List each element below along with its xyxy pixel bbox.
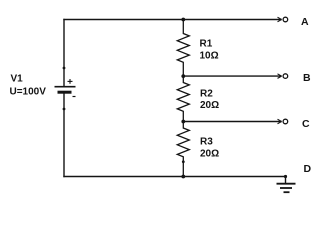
ground [277, 184, 296, 193]
svg-text:B: B [303, 72, 311, 84]
wire bottom (node D rail) [64, 176, 286, 178]
node C terminal [278, 119, 288, 124]
svg-text:10Ω: 10Ω [200, 50, 219, 61]
wire left upper (top rail to battery +) [63, 20, 65, 87]
wire top (node A rail) [64, 19, 281, 21]
svg-text:D: D [304, 163, 312, 175]
svg-text:U=100V: U=100V [10, 86, 47, 97]
svg-text:20Ω: 20Ω [200, 148, 219, 159]
svg-text:A: A [301, 16, 309, 28]
svg-text:R2: R2 [200, 88, 213, 99]
junction node B [181, 74, 185, 78]
junction node D [284, 175, 287, 178]
junction node C [181, 120, 185, 124]
node A terminal [278, 17, 288, 22]
resistor R3 [177, 122, 189, 177]
svg-text:R1: R1 [200, 38, 213, 49]
battery V1 [55, 67, 76, 111]
wire D stub to ground [285, 177, 287, 184]
svg-text:C: C [302, 118, 310, 130]
svg-text:20Ω: 20Ω [200, 100, 219, 111]
resistor R1 [177, 20, 189, 77]
junction bottom of middle branch [181, 175, 185, 179]
junction top of middle branch [181, 18, 185, 22]
wire node B [183, 75, 281, 77]
wire node C [183, 121, 281, 123]
resistor R2 [177, 76, 189, 121]
svg-text:R3: R3 [200, 136, 213, 147]
node B terminal [278, 74, 288, 79]
svg-text:V1: V1 [11, 74, 24, 85]
wire left lower (battery - to bottom rail) [63, 94, 65, 177]
